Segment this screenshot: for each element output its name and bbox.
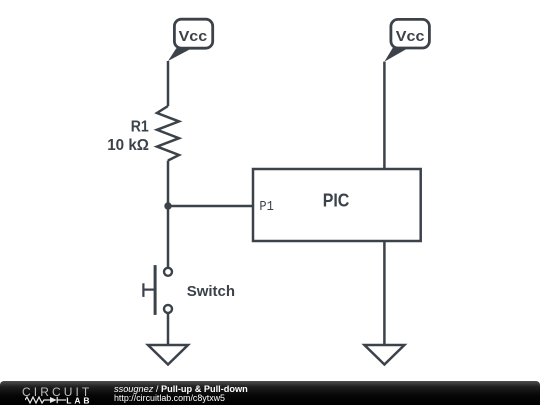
power Vcc (right) <box>384 19 429 61</box>
power Vcc (left) <box>168 19 213 61</box>
svg-text:PIC: PIC <box>323 190 350 210</box>
ground (right) <box>364 345 404 365</box>
wire switch to ground left <box>167 313 170 345</box>
footer bar <box>0 381 540 405</box>
wire Vcc-right to PIC top <box>383 62 386 169</box>
IC U1 PIC box <box>253 169 421 241</box>
wire Vcc-left to R1 <box>167 61 170 106</box>
wire PIC bottom to ground right <box>383 241 386 345</box>
svg-text:Vcc: Vcc <box>179 28 208 45</box>
ground (left) <box>148 345 188 365</box>
wire node to PIC pin P1 <box>168 205 253 208</box>
CircuitLab logo <box>22 385 92 399</box>
wire node to switch <box>167 206 170 267</box>
svg-text:P1: P1 <box>259 200 273 215</box>
node junction <box>164 202 171 209</box>
switch SW1 <box>143 265 172 315</box>
svg-text:R1: R1 <box>131 118 149 135</box>
footer credit line <box>114 384 248 394</box>
resistor R1 <box>157 106 179 161</box>
svg-text:10 kΩ: 10 kΩ <box>107 137 149 154</box>
svg-text:Vcc: Vcc <box>396 28 425 45</box>
svg-text:LAB: LAB <box>66 396 92 405</box>
svg-text:Switch: Switch <box>187 283 235 300</box>
footer url line <box>114 393 225 403</box>
wire R1 to node <box>167 161 170 207</box>
